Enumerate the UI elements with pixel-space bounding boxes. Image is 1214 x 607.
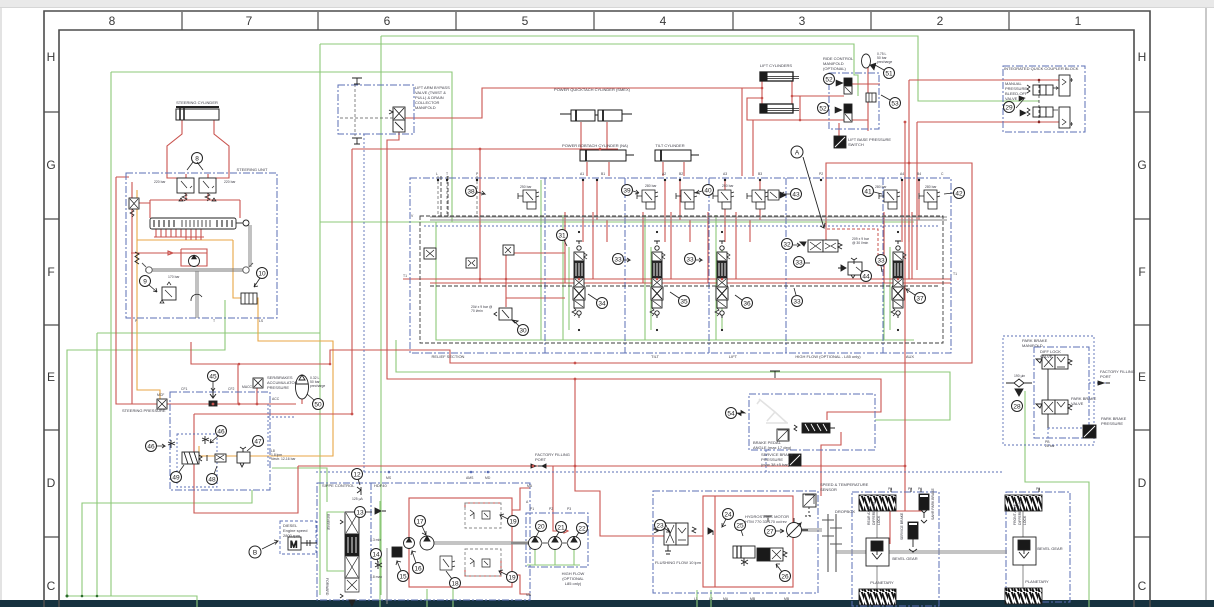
svg-text:DIFFERENTIAL &: DIFFERENTIAL & (1018, 497, 1022, 525)
svg-text:L1: L1 (694, 597, 698, 601)
svg-text:REAR AXLE: REAR AXLE (867, 505, 871, 525)
svg-text:34: 34 (598, 301, 606, 308)
svg-text:39: 39 (623, 188, 631, 195)
svg-text:VALVE: VALVE (1071, 401, 1084, 406)
svg-text:PRESSURE: PRESSURE (267, 385, 289, 390)
svg-text:1: 1 (1075, 14, 1082, 28)
svg-text:32: 32 (783, 242, 791, 249)
svg-text:DROPBOX: DROPBOX (835, 509, 855, 514)
svg-text:6: 6 (384, 14, 391, 28)
svg-text:P: P (476, 172, 479, 176)
svg-text:L2: L2 (709, 597, 713, 601)
svg-text:52: 52 (825, 77, 833, 84)
svg-text:52: 52 (819, 106, 827, 113)
svg-text:24: 24 (724, 512, 732, 519)
svg-text:STEERING UNIT: STEERING UNIT (237, 167, 268, 172)
svg-text:STEERING CYLINDER: STEERING CYLINDER (176, 100, 218, 105)
svg-text:B4: B4 (917, 172, 921, 176)
svg-text:22: 22 (578, 526, 586, 533)
svg-text:8: 8 (195, 156, 199, 163)
svg-text:MB: MB (784, 597, 790, 601)
svg-text:M: M (290, 540, 298, 550)
svg-text:P3: P3 (888, 487, 892, 491)
svg-text:TILT CYLINDER: TILT CYLINDER (655, 143, 684, 148)
svg-text:46: 46 (217, 429, 225, 436)
svg-text:MACC: MACC (242, 385, 253, 389)
svg-text:FRONT AXLE: FRONT AXLE (1013, 503, 1017, 525)
svg-text:VALVE: VALVE (1005, 96, 1018, 101)
svg-text:B: B (253, 550, 257, 557)
svg-text:A2: A2 (662, 172, 666, 176)
svg-text:ANGLE (max 17 deg): ANGLE (max 17 deg) (753, 445, 792, 450)
svg-text:@ 30 l/min: @ 30 l/min (852, 241, 868, 245)
svg-text:E: E (1138, 370, 1146, 384)
svg-text:170 bar: 170 bar (168, 275, 180, 279)
svg-text:19: 19 (508, 575, 516, 582)
svg-text:PLANETARY: PLANETARY (870, 580, 894, 585)
svg-text:48: 48 (208, 477, 216, 484)
svg-text:H: H (47, 50, 56, 64)
svg-text:T: T (446, 172, 448, 176)
svg-text:L85 only): L85 only) (565, 581, 582, 586)
svg-text:17: 17 (416, 519, 424, 526)
svg-text:41: 41 (864, 189, 872, 196)
svg-text:45: 45 (209, 374, 217, 381)
svg-text:25: 25 (736, 523, 744, 530)
svg-text:250 bar: 250 bar (722, 184, 734, 188)
svg-text:MCF: MCF (157, 393, 164, 397)
svg-text:1.3 min: 1.3 min (370, 538, 381, 542)
svg-text:53: 53 (891, 101, 899, 108)
svg-text:35: 35 (680, 299, 688, 306)
svg-text:P3: P3 (567, 507, 571, 511)
svg-text:44: 44 (862, 274, 870, 281)
svg-text:31: 31 (558, 233, 566, 240)
svg-text:SWITCH: SWITCH (848, 142, 864, 147)
svg-text:10: 10 (258, 271, 266, 278)
svg-text:V: V (411, 214, 414, 218)
svg-text:27: 27 (766, 529, 774, 536)
svg-text:51: 51 (885, 71, 893, 78)
svg-text:G: G (46, 158, 55, 172)
svg-text:FORWARD: FORWARD (325, 578, 329, 596)
svg-text:280 bar: 280 bar (645, 184, 657, 188)
svg-text:49: 49 (172, 475, 180, 482)
svg-text:H: H (1138, 50, 1147, 64)
svg-text:POWER BOBTACH CYLINDER (NA): POWER BOBTACH CYLINDER (NA) (562, 143, 629, 148)
svg-text:MD: MD (485, 476, 491, 480)
svg-text:12: 12 (353, 472, 361, 479)
svg-text:LIFT: LIFT (729, 354, 738, 359)
svg-text:A1: A1 (580, 172, 584, 176)
svg-text:E: E (47, 370, 55, 384)
svg-text:SAHR PARK BRAKE: SAHR PARK BRAKE (931, 487, 935, 520)
svg-text:F: F (1138, 265, 1145, 279)
svg-text:A3: A3 (723, 172, 727, 176)
svg-text:9: 9 (143, 279, 147, 286)
svg-text:REVERSE: REVERSE (326, 514, 330, 531)
svg-text:B1: B1 (601, 172, 605, 176)
svg-text:CF1: CF1 (181, 387, 188, 391)
svg-text:PRESSURE: PRESSURE (1101, 421, 1123, 426)
svg-text:D: D (1138, 476, 1147, 490)
svg-text:PORT: PORT (1100, 374, 1112, 379)
svg-text:C: C (941, 172, 944, 176)
svg-text:MANIFOLD: MANIFOLD (415, 105, 436, 110)
svg-text:A4: A4 (900, 172, 904, 176)
svg-text:(OPTIONAL): (OPTIONAL) (823, 66, 847, 71)
svg-text:MA: MA (527, 484, 533, 488)
svg-text:21: 21 (557, 525, 565, 532)
svg-text:L: L (436, 172, 438, 176)
svg-text:18: 18 (451, 581, 459, 588)
svg-text:42: 42 (955, 191, 963, 198)
svg-text:13: 13 (356, 510, 364, 517)
svg-text:250 bar: 250 bar (520, 185, 532, 189)
svg-text:1.8 max: 1.8 max (370, 575, 382, 579)
svg-text:HDF40: HDF40 (374, 483, 387, 488)
svg-text:C: C (1138, 579, 1147, 593)
svg-text:50: 50 (314, 402, 322, 409)
svg-text:190 µin: 190 µin (1014, 374, 1025, 378)
svg-text:precharge: precharge (877, 60, 892, 64)
svg-text:precharge: precharge (310, 384, 325, 388)
svg-text:15: 15 (399, 574, 407, 581)
svg-text:P1: P1 (918, 487, 922, 491)
svg-text:F: F (47, 265, 54, 279)
svg-text:33: 33 (614, 257, 622, 264)
svg-text:36: 36 (743, 301, 751, 308)
svg-text:POWER QUICKTACH CYLINDER (SME: POWER QUICKTACH CYLINDER (SMEX) (554, 87, 631, 92)
svg-text:B3: B3 (758, 172, 762, 176)
svg-text:VALVE: VALVE (1040, 354, 1053, 359)
svg-text:8: 8 (109, 14, 116, 28)
svg-text:PORT: PORT (535, 457, 547, 462)
svg-text:A: A (795, 150, 800, 157)
svg-text:MA: MA (723, 597, 729, 601)
svg-text:G: G (1137, 158, 1146, 172)
svg-text:20: 20 (537, 524, 545, 531)
svg-text:220 bar: 220 bar (154, 180, 166, 184)
svg-text:P2: P2 (908, 487, 912, 491)
svg-text:LOCK: LOCK (1023, 515, 1027, 525)
svg-text:LS: LS (259, 319, 264, 323)
svg-text:26: 26 (781, 574, 789, 581)
svg-text:B2: B2 (679, 172, 683, 176)
svg-text:MB: MB (750, 597, 756, 601)
svg-text:23: 23 (656, 523, 664, 530)
svg-text:LOCK: LOCK (877, 515, 881, 525)
svg-text:29: 29 (1005, 105, 1013, 112)
svg-text:BEVEL GEAR: BEVEL GEAR (1037, 546, 1062, 551)
svg-text:28: 28 (1013, 404, 1021, 411)
svg-text:33: 33 (795, 260, 803, 267)
svg-text:AUX: AUX (906, 354, 915, 359)
svg-text:30: 30 (519, 328, 527, 335)
svg-text:4: 4 (660, 14, 667, 28)
svg-text:RELIEF SECTION: RELIEF SECTION (432, 354, 465, 359)
svg-text:(max 38 ±5 bar): (max 38 ±5 bar) (761, 462, 790, 467)
svg-text:220 bar: 220 bar (224, 180, 236, 184)
svg-text:D: D (47, 476, 56, 490)
svg-text:70 l/min: 70 l/min (471, 309, 483, 313)
svg-text:SIPPE CONTROL: SIPPE CONTROL (322, 483, 355, 488)
svg-text:ACC: ACC (272, 397, 280, 401)
svg-text:47: 47 (254, 439, 262, 446)
svg-text:AMS: AMS (466, 476, 474, 480)
svg-text:CF2: CF2 (228, 387, 235, 391)
svg-text:P1: P1 (530, 507, 534, 511)
svg-text:37: 37 (916, 296, 924, 303)
svg-text:DIFFERENTIAL: DIFFERENTIAL (872, 501, 876, 525)
svg-text:T1: T1 (403, 274, 407, 278)
svg-text:33: 33 (877, 258, 885, 265)
svg-text:SERVICE BRAKE: SERVICE BRAKE (900, 512, 904, 540)
svg-text:T: T (213, 319, 215, 323)
svg-text:INTEGRATED QUICK COUPLER BLOCK: INTEGRATED QUICK COUPLER BLOCK (1004, 66, 1079, 71)
svg-text:HIGH FLOW (OPTIONAL - L85 only: HIGH FLOW (OPTIONAL - L85 only) (795, 354, 861, 359)
svg-text:MANIFOLD: MANIFOLD (1022, 343, 1043, 348)
svg-text:280 bar: 280 bar (875, 185, 887, 189)
svg-text:280 bar: 280 bar (925, 185, 937, 189)
svg-text:125 µA: 125 µA (352, 497, 364, 501)
svg-text:STEERING PRESSURE: STEERING PRESSURE (122, 408, 166, 413)
svg-text:HTM 770 33-170 cc/rev: HTM 770 33-170 cc/rev (745, 519, 787, 524)
svg-text:P3: P3 (1036, 487, 1040, 491)
svg-text:28 bar: 28 bar (1045, 444, 1055, 448)
svg-text:33: 33 (686, 257, 694, 264)
svg-text:14: 14 (372, 552, 380, 559)
svg-text:40: 40 (704, 188, 712, 195)
svg-text:46: 46 (147, 444, 155, 451)
svg-text:BEVEL GEAR: BEVEL GEAR (892, 556, 917, 561)
svg-text:MB: MB (526, 593, 532, 597)
svg-text:54: 54 (727, 411, 735, 418)
svg-text:Neutr. 12-16 bar: Neutr. 12-16 bar (271, 457, 296, 461)
svg-text:5: 5 (522, 14, 529, 28)
svg-text:SENSOR: SENSOR (820, 487, 837, 492)
svg-text:PLANETARY: PLANETARY (1025, 579, 1049, 584)
svg-text:16: 16 (414, 566, 422, 573)
svg-text:FLUSHING FLOW 10 lpm: FLUSHING FLOW 10 lpm (655, 560, 702, 565)
svg-text:19: 19 (509, 519, 517, 526)
svg-text:P2: P2 (549, 507, 553, 511)
svg-text:T1: T1 (953, 272, 957, 276)
svg-text:7: 7 (246, 14, 253, 28)
svg-text:2: 2 (937, 14, 944, 28)
svg-text:MS: MS (386, 476, 392, 480)
svg-text:3: 3 (799, 14, 806, 28)
svg-text:LIFT CYLINDERS: LIFT CYLINDERS (760, 63, 792, 68)
svg-text:C: C (47, 579, 56, 593)
svg-text:2800 rpm: 2800 rpm (283, 533, 301, 538)
svg-text:38: 38 (467, 189, 475, 196)
svg-text:33: 33 (793, 299, 801, 306)
svg-text:A: A (526, 500, 529, 504)
svg-text:43: 43 (792, 192, 800, 199)
svg-text:P2: P2 (819, 172, 823, 176)
svg-text:TILT: TILT (651, 354, 659, 359)
